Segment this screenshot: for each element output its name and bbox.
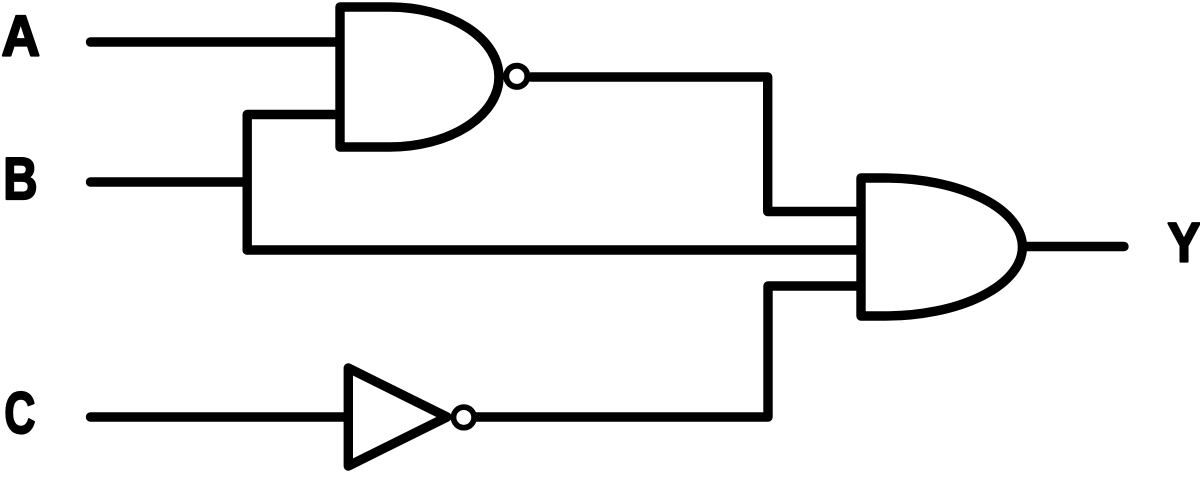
AND gate U2 body [861,178,1022,316]
wire: input B to junction node B1 [91,177,247,186]
svg-text:C: C [4,381,35,446]
NAND gate U1 body [340,7,499,147]
wire: AND U2 output to label Y [1023,242,1124,251]
wire: NAND U1 output right, down at x=767, to AND U2 top input [531,77,863,212]
svg-text:B: B [3,145,37,212]
wire: input C to NOT U3 input [91,412,347,421]
wire: input A to NAND U1 top input [91,37,343,46]
NAND gate U1 inversion bubble [506,66,527,87]
wire: node B1 long horizontal run to AND U2 middle input [247,245,863,254]
wire: node B1 riser up and branch right to NAND U1 bottom input [247,115,342,251]
wire: NOT U3 output right, up at x=768, to AND U2 bottom input [476,286,863,417]
NOT gate U3 inversion bubble [454,407,475,428]
NOT gate U3 triangle [348,368,447,466]
svg-text:Y: Y [1168,210,1200,273]
svg-text:A: A [2,5,41,69]
